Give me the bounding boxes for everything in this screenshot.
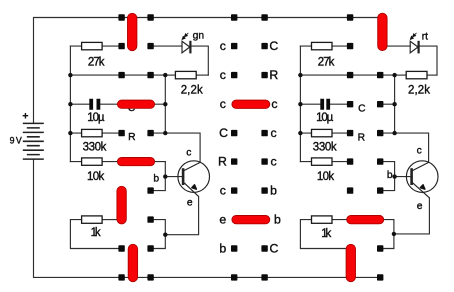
svg-text:C: C — [219, 126, 228, 140]
svg-text:1k: 1k — [321, 228, 331, 240]
wire 1k right stub — [102, 219, 117, 221]
svg-text:10k: 10k — [317, 171, 334, 183]
jumper vertical bottom-right — [346, 244, 355, 281]
svg-text:R: R — [269, 68, 278, 82]
wire left row5 10k feed — [70, 161, 165, 163]
wire right bracket vertical — [299, 46, 301, 162]
svg-text:2,2k: 2,2k — [408, 84, 430, 96]
jumper horizontal right row7 — [347, 216, 384, 224]
sockets column B — [147, 14, 153, 280]
wire right row4 330k feed — [300, 132, 350, 134]
jumper vertical left rows6-7 — [117, 186, 126, 224]
jumper horizontal left row3 — [117, 100, 154, 108]
svg-text:C: C — [358, 104, 366, 115]
resistor R6 27k right — [312, 42, 333, 49]
wire bottom rail (battery - to right) — [34, 159, 381, 277]
sockets column A — [118, 14, 124, 280]
LED D1 arrowheads — [182, 33, 188, 39]
wire right 1k right stub — [332, 219, 347, 221]
wire LED1 anode feed — [151, 45, 182, 47]
svg-text:c: c — [271, 97, 277, 111]
wire Q2 base chain — [380, 162, 411, 191]
wire right row3 link to V2 — [380, 103, 395, 105]
svg-text:10k: 10k — [87, 171, 104, 183]
wire left row3 cap feed — [70, 103, 165, 105]
svg-text:R: R — [218, 155, 227, 169]
svg-text:b: b — [274, 213, 281, 227]
resistor R1 27k — [82, 42, 103, 49]
transistor Q1 — [178, 161, 210, 197]
svg-text:2,2k: 2,2k — [181, 84, 203, 96]
wire LED2 cathode to 2k2 — [420, 46, 437, 75]
wire node V2 vertical — [394, 75, 396, 133]
svg-text:c: c — [220, 68, 226, 82]
svg-text:b: b — [153, 174, 159, 185]
capacitor C2 10u right — [322, 99, 328, 110]
svg-text:9: 9 — [10, 135, 15, 145]
jumper vertical top-right — [378, 13, 387, 50]
svg-text:e: e — [219, 213, 226, 227]
resistor R4 1k — [82, 216, 103, 223]
wire right 1k bracket — [300, 220, 346, 249]
jumper horizontal left row5 — [117, 158, 154, 166]
svg-text:330k: 330k — [83, 142, 107, 154]
junction dots right — [298, 73, 397, 236]
svg-text:b: b — [387, 170, 393, 181]
sockets column D — [377, 72, 383, 281]
wire 2k2 left — [165, 74, 175, 76]
wire LED2 anode feed — [387, 45, 410, 47]
LED D1 gn — [182, 33, 190, 54]
svg-text:c: c — [417, 146, 422, 157]
svg-text:c: c — [220, 39, 226, 53]
Q2 emitter arrowhead — [420, 185, 425, 189]
svg-text:c: c — [186, 147, 191, 158]
wire left row2 — [70, 74, 165, 76]
wire Q2 emitter run — [394, 198, 430, 234]
wire left row1 27k feed — [70, 45, 121, 47]
svg-text:c: c — [271, 126, 277, 140]
wire right row3 cap feed — [300, 103, 350, 105]
wire 1k left bracket — [70, 220, 121, 249]
jumper horizontal middle row3 — [232, 100, 270, 108]
wire 2k2 right — [196, 74, 208, 76]
node labels middle-right column — [269, 39, 281, 255]
resistor R5 2,2k — [175, 71, 196, 78]
wire left bracket vertical — [69, 46, 71, 162]
resistor R9 1k right — [312, 216, 333, 223]
capacitor C1 10u — [91, 99, 98, 110]
svg-text:C: C — [269, 39, 278, 53]
svg-text:b: b — [219, 241, 226, 255]
wire right row5 10k feed — [300, 161, 350, 163]
svg-text:rt: rt — [422, 32, 428, 43]
wire right 2k2 right — [427, 74, 437, 76]
svg-text:330k: 330k — [313, 142, 337, 154]
transistor Q2 — [406, 161, 438, 198]
resistor R10 2,2k right — [406, 71, 427, 78]
resistor R2 330k — [82, 129, 103, 136]
wire left row4 330k feed — [70, 132, 121, 134]
wire right 2k2 left — [395, 74, 407, 76]
svg-text:c: c — [271, 155, 277, 169]
wire Q1 collector — [151, 133, 201, 162]
LED D2 arrowheads — [410, 33, 416, 39]
wire LED1 cathode to 2k2 — [192, 46, 209, 75]
wire right row2 — [300, 74, 394, 76]
wire node V1 vertical — [164, 75, 166, 133]
svg-text:e: e — [187, 197, 193, 208]
wire top rail (battery + to right) — [34, 18, 383, 124]
jumper vertical top-left — [128, 13, 137, 50]
svg-text:R: R — [128, 132, 135, 143]
svg-text:27k: 27k — [318, 56, 335, 68]
svg-text:e: e — [417, 201, 423, 212]
wire left U-link rows 8-9 — [151, 220, 166, 249]
svg-text:gn: gn — [193, 31, 205, 42]
sockets column M2 — [261, 14, 267, 280]
svg-text:c: c — [220, 97, 226, 111]
svg-text:10µ: 10µ — [316, 112, 334, 124]
jumper horizontal middle row7 — [232, 216, 270, 224]
sockets column C — [347, 14, 353, 193]
svg-text:27k: 27k — [88, 56, 105, 68]
wire Q1 emitter run — [165, 196, 198, 234]
svg-text:c: c — [220, 184, 226, 198]
wire right link rows 8-9 — [380, 220, 394, 249]
wire right row1 27k feed — [300, 45, 350, 47]
Q1 emitter arrowhead — [192, 185, 197, 189]
svg-text:R: R — [358, 132, 365, 143]
resistor R3 10k — [82, 158, 103, 165]
battery + mark — [23, 113, 29, 119]
wire Q1 base chain — [151, 162, 182, 191]
junction dots left — [68, 73, 167, 237]
wire Q2 collector — [380, 133, 429, 162]
LED D2 rt — [410, 33, 418, 54]
svg-text:C: C — [269, 241, 278, 255]
svg-text:10µ: 10µ — [87, 112, 105, 124]
battery 9V — [23, 123, 44, 159]
svg-text:1k: 1k — [91, 227, 101, 239]
resistor R7 330k right — [312, 129, 333, 136]
node labels middle-left column — [218, 39, 228, 255]
jumper vertical bottom-left — [128, 244, 137, 281]
sockets column M1 — [231, 14, 237, 280]
resistor R8 10k right — [312, 158, 333, 165]
svg-text:b: b — [270, 184, 277, 198]
svg-text:V: V — [16, 135, 22, 145]
